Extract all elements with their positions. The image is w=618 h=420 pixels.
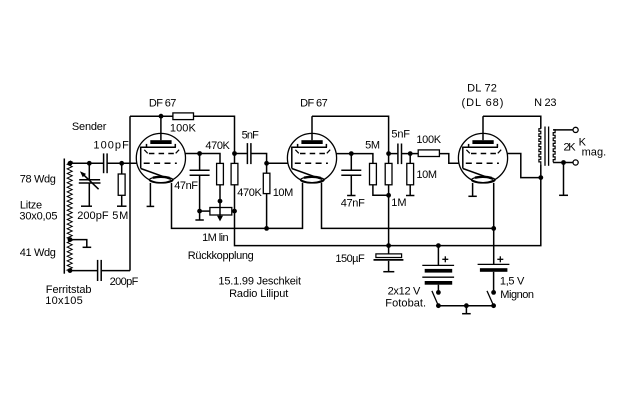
svg-text:10M: 10M — [273, 187, 294, 199]
svg-text:15.1.99 Jeschkeit: 15.1.99 Jeschkeit — [218, 276, 301, 288]
svg-text:Sender: Sender — [72, 121, 107, 133]
svg-text:5nF: 5nF — [391, 129, 410, 141]
svg-text:1M lin: 1M lin — [202, 232, 229, 244]
svg-text:47nF: 47nF — [174, 180, 198, 192]
svg-text:(DL 68): (DL 68) — [462, 97, 504, 109]
svg-text:Ferritstab: Ferritstab — [46, 284, 92, 296]
svg-text:150µF: 150µF — [335, 253, 365, 265]
svg-text:47nF: 47nF — [341, 197, 365, 209]
svg-text:N 23: N 23 — [534, 97, 556, 109]
svg-text:2K: 2K — [564, 142, 577, 154]
svg-text:DF 67: DF 67 — [300, 98, 328, 110]
svg-text:DF 67: DF 67 — [149, 98, 177, 110]
svg-text:2x12 V: 2x12 V — [388, 285, 421, 297]
svg-text:10x105: 10x105 — [45, 295, 82, 307]
svg-text:Radio Liliput: Radio Liliput — [229, 288, 288, 300]
svg-text:5M: 5M — [112, 210, 128, 222]
svg-text:470K: 470K — [205, 140, 230, 152]
svg-text:100K: 100K — [416, 134, 441, 146]
svg-text:5M: 5M — [365, 140, 380, 152]
svg-text:30x0,05: 30x0,05 — [19, 211, 57, 223]
svg-text:Litze: Litze — [20, 199, 42, 211]
svg-text:470K: 470K — [237, 187, 262, 199]
svg-text:41 Wdg: 41 Wdg — [20, 247, 56, 259]
svg-text:1M: 1M — [391, 197, 406, 209]
svg-text:200pF: 200pF — [110, 276, 139, 288]
svg-text:1,5 V: 1,5 V — [500, 276, 525, 288]
svg-text:100pF: 100pF — [93, 139, 129, 151]
svg-text:Rückkopplung: Rückkopplung — [188, 250, 254, 262]
svg-text:100K: 100K — [170, 123, 197, 135]
svg-text:200pF: 200pF — [77, 210, 109, 222]
svg-text:10M: 10M — [416, 169, 437, 181]
svg-text:5nF: 5nF — [242, 130, 260, 142]
svg-text:Fotobat.: Fotobat. — [385, 298, 426, 310]
svg-text:Mignon: Mignon — [500, 289, 534, 301]
svg-text:mag.: mag. — [582, 146, 607, 158]
svg-text:78 Wdg: 78 Wdg — [20, 174, 56, 186]
svg-text:DL 72: DL 72 — [467, 83, 497, 95]
